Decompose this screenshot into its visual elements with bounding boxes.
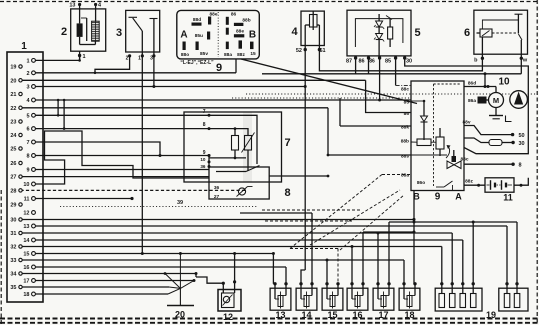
svg-text:8: 8 xyxy=(203,122,206,128)
scan shading band xyxy=(243,112,252,182)
diode in unit9 xyxy=(423,101,425,116)
svg-text:28: 28 xyxy=(10,188,16,194)
socket pin 88a xyxy=(226,42,229,50)
sensor 12 pins xyxy=(196,277,223,293)
wire pin7 step to pin8 bus xyxy=(36,142,161,156)
svg-text:A: A xyxy=(180,30,187,41)
svg-text:11: 11 xyxy=(24,197,30,203)
svg-text:11: 11 xyxy=(503,193,513,203)
fuse 4 xyxy=(301,11,324,45)
svg-text:6: 6 xyxy=(26,127,29,133)
wire 86c down to 85 input xyxy=(379,58,381,100)
svg-text:8: 8 xyxy=(519,163,522,169)
wire bus pin17 to injector 15 xyxy=(36,280,195,282)
svg-text:16: 16 xyxy=(352,310,362,320)
wire pin4 bus to control unit 85 input xyxy=(36,99,412,101)
injector 13 xyxy=(270,288,291,310)
unit 8 box xyxy=(209,167,269,199)
svg-text:8: 8 xyxy=(284,187,290,199)
svg-text:86: 86 xyxy=(231,12,237,18)
svg-text:1: 1 xyxy=(21,41,27,52)
wire 88z diagonal to control unit 85 xyxy=(241,59,417,104)
wire 52 trunk down xyxy=(304,50,306,270)
injector 14 xyxy=(296,288,317,310)
socket pin 85u xyxy=(207,32,210,40)
coil internal tap xyxy=(86,18,88,41)
svg-text:86o: 86o xyxy=(417,180,425,186)
svg-text:15: 15 xyxy=(23,252,29,258)
pump symbol xyxy=(510,91,528,109)
injector drop wires xyxy=(272,254,274,284)
relay 6 contact xyxy=(515,13,523,15)
wire comp6 w down xyxy=(520,58,522,74)
svg-text:“L-EJ”,“EZ-L”: “L-EJ”,“EZ-L” xyxy=(180,60,214,66)
trunk from unit9 bottom to injector 18 xyxy=(413,191,415,284)
svg-text:88c: 88c xyxy=(401,87,409,93)
injector 15 xyxy=(322,288,343,310)
wire bus pin14 to connector 19 xyxy=(36,239,463,241)
frame border dashed xyxy=(0,1,539,3)
wire bus terminal35 to ground fan xyxy=(22,286,169,288)
svg-text:3: 3 xyxy=(26,85,29,91)
svg-text:88b: 88b xyxy=(401,139,409,145)
resistor in unit7 left xyxy=(232,136,239,151)
svg-text:50: 50 xyxy=(519,133,525,139)
relay 5 terminals xyxy=(354,56,357,59)
wire to terminal 30 with resistor xyxy=(464,138,489,143)
svg-text:2: 2 xyxy=(26,71,29,77)
wire bus terminal31 to connector 19 xyxy=(22,232,452,234)
diode relay 5 xyxy=(347,10,411,56)
unit7 wiring xyxy=(209,115,257,164)
svg-text:88z: 88z xyxy=(465,179,473,185)
svg-text:24: 24 xyxy=(10,133,17,139)
dashed texture rows xyxy=(262,209,360,211)
svg-text:13: 13 xyxy=(275,310,285,320)
wire bus terminal30 to trunk xyxy=(22,219,414,221)
svg-text:21: 21 xyxy=(10,92,16,98)
svg-text:w: w xyxy=(522,58,528,64)
svg-text:85v: 85v xyxy=(200,51,208,57)
svg-text:25: 25 xyxy=(10,147,16,153)
wire 30 to right edge loop xyxy=(405,58,529,154)
svg-text:88a: 88a xyxy=(401,173,409,179)
ground under motor xyxy=(495,108,497,116)
svg-text:B: B xyxy=(249,30,256,41)
control sensor unit 7 xyxy=(184,112,282,182)
socket pin 88z xyxy=(239,40,243,48)
ignition switch 3 xyxy=(126,10,160,52)
wire pin1 to component 2 xyxy=(36,56,80,61)
bus A y222 xyxy=(389,221,517,223)
injector 17 xyxy=(373,288,394,310)
fuel pump motor M 10 xyxy=(489,93,504,108)
svg-text:15: 15 xyxy=(250,51,256,57)
wire comp3 pin1 long vertical to bus 15 xyxy=(141,56,143,254)
wire bus terminal32 to connector 19 xyxy=(22,246,442,248)
88a dashed input xyxy=(382,174,411,176)
resistance pack 11 xyxy=(485,178,514,192)
wire bus pin18 xyxy=(36,293,169,295)
svg-text:20: 20 xyxy=(175,310,185,320)
wire bus pin13 to connector 19 right xyxy=(36,225,508,227)
svg-text:3: 3 xyxy=(150,56,153,62)
svg-text:88s: 88s xyxy=(401,154,409,160)
wire pin3 bus to trunk x305 xyxy=(36,86,306,88)
svg-text:1: 1 xyxy=(82,54,85,60)
svg-text:30: 30 xyxy=(519,141,525,147)
svg-text:9: 9 xyxy=(435,192,441,203)
socket pin 88b xyxy=(234,23,244,26)
86a feed block xyxy=(478,97,487,104)
svg-text:5: 5 xyxy=(26,113,29,119)
wire 86d from unit9 to motor xyxy=(464,86,496,88)
svg-text:31: 31 xyxy=(10,231,16,237)
svg-text:1: 1 xyxy=(138,56,141,62)
wire pin10 staircase to unit 8 xyxy=(36,131,210,184)
svg-text:M: M xyxy=(493,96,499,105)
svg-text:36: 36 xyxy=(200,164,206,169)
svg-text:36: 36 xyxy=(214,185,220,191)
svg-text:88z: 88z xyxy=(237,52,245,58)
wire 51 to relay 6 terminal b xyxy=(319,50,482,71)
svg-text:88k: 88k xyxy=(401,125,409,131)
svg-text:16: 16 xyxy=(23,265,29,271)
relay 5 contact xyxy=(386,16,392,20)
svg-text:3: 3 xyxy=(116,27,122,39)
svg-text:6: 6 xyxy=(464,27,470,39)
socket pin 86 xyxy=(226,17,229,25)
dotted bus line y94 xyxy=(246,93,536,95)
svg-text:39: 39 xyxy=(177,200,183,206)
svg-text:86: 86 xyxy=(358,59,364,65)
svg-text:2: 2 xyxy=(61,26,67,38)
svg-text:7: 7 xyxy=(26,140,29,146)
wire injector14 right feed xyxy=(311,213,313,284)
svg-text:7: 7 xyxy=(203,109,206,115)
socket pin 85v xyxy=(196,42,199,51)
svg-text:88c: 88c xyxy=(460,157,468,163)
svg-text:34: 34 xyxy=(10,272,17,278)
pump relay 6 xyxy=(474,10,528,54)
relay socket 9 xyxy=(177,10,259,59)
svg-text:22: 22 xyxy=(10,106,16,112)
svg-text:30: 30 xyxy=(406,59,412,65)
svg-text:14: 14 xyxy=(23,238,30,244)
svg-text:86d: 86d xyxy=(468,81,476,87)
wire terminal27 row into unit 8 xyxy=(21,176,210,178)
svg-text:15: 15 xyxy=(327,310,337,320)
ignition coil 2 xyxy=(71,9,106,51)
wire terminal20 row to 86 input of control unit xyxy=(21,79,366,81)
svg-text:51: 51 xyxy=(319,48,325,54)
relay 5 winding xyxy=(388,27,393,39)
bus relay y232 to injector 16 xyxy=(363,231,414,233)
block1 pin circles 1-18 xyxy=(32,59,36,63)
socket pin 88e B xyxy=(234,34,244,37)
svg-text:87: 87 xyxy=(346,59,352,65)
svg-text:13: 13 xyxy=(69,3,75,9)
temperature sensor 12 xyxy=(218,290,241,312)
wire unit8 out to 88s chain xyxy=(269,175,328,177)
wire pin5 to sensor unit 7 pin 7 xyxy=(36,114,210,116)
svg-text:29: 29 xyxy=(10,203,16,209)
wire pin8 bus to unit 7 lower pins xyxy=(36,155,210,157)
wire 87/86 bus xyxy=(262,73,521,75)
svg-text:88v: 88v xyxy=(462,120,470,126)
svg-text:19: 19 xyxy=(10,65,16,71)
temperature sensor in unit8 xyxy=(238,188,245,195)
wire bus terminal34 to ground fan xyxy=(22,273,196,275)
svg-text:9: 9 xyxy=(203,150,206,156)
socket pin mid xyxy=(226,28,229,35)
wire pin12 mid segment to injector 14 xyxy=(240,212,312,214)
svg-text:10: 10 xyxy=(498,77,510,88)
coil primary winding xyxy=(77,23,83,37)
wire terminal29 dotted row xyxy=(60,206,258,208)
wire pin11 stub xyxy=(36,198,133,200)
zener diode 2 xyxy=(376,34,383,40)
control unit 9 box xyxy=(411,81,464,191)
svg-text:13: 13 xyxy=(23,224,29,230)
switch in unit9 bottom xyxy=(436,186,444,188)
svg-text:85u: 85u xyxy=(195,33,203,39)
svg-text:18: 18 xyxy=(23,292,29,298)
relay 6 winding xyxy=(480,29,492,37)
svg-text:30: 30 xyxy=(10,218,16,224)
svg-text:35: 35 xyxy=(10,285,16,291)
svg-text:85: 85 xyxy=(385,59,391,65)
svg-text:86: 86 xyxy=(369,59,375,65)
svg-text:32: 32 xyxy=(10,245,16,251)
svg-text:9: 9 xyxy=(216,62,222,74)
stub junction verticals from pin4 bus xyxy=(57,100,59,115)
wire terminal22 row to 88s input xyxy=(21,107,329,109)
socket pin 88e xyxy=(208,17,211,25)
wire pin2 bus to relay 9 socket xyxy=(36,72,237,74)
block1 terminal labels 19-35 xyxy=(19,65,22,68)
wire bus terminal33 to injector 18 xyxy=(22,259,404,261)
connector 19 right part xyxy=(499,288,528,311)
valve symbol unit9 xyxy=(447,161,454,169)
svg-text:85: 85 xyxy=(404,100,410,106)
svg-text:86a: 86a xyxy=(468,98,476,104)
resistor in unit9 xyxy=(417,139,431,146)
wire bus pin15 xyxy=(36,253,274,255)
injector 16 xyxy=(347,288,368,310)
svg-text:17: 17 xyxy=(378,310,388,320)
svg-text:5: 5 xyxy=(414,27,420,39)
svg-text:2: 2 xyxy=(126,56,129,62)
svg-text:88d: 88d xyxy=(193,17,201,23)
svg-text:19: 19 xyxy=(486,310,496,320)
svg-text:18: 18 xyxy=(404,310,414,320)
svg-text:33: 33 xyxy=(10,258,16,264)
wire comp3 pin3 down to pin3 bus xyxy=(153,56,155,87)
svg-text:27: 27 xyxy=(214,194,220,200)
svg-text:9: 9 xyxy=(26,168,29,174)
svg-text:7: 7 xyxy=(284,137,290,149)
socket pin 88d xyxy=(192,23,202,26)
connector X1 block 1 xyxy=(7,52,43,302)
socket pin 88o xyxy=(183,42,186,51)
wire junction to 86d xyxy=(484,74,486,87)
injector 18 xyxy=(399,288,420,310)
svg-text:26: 26 xyxy=(10,161,16,167)
wire 85 dash-dot to 88c xyxy=(395,58,397,85)
svg-text:10: 10 xyxy=(200,157,206,162)
wire bus pin16 to injector 13 xyxy=(36,266,287,268)
svg-text:20: 20 xyxy=(10,78,16,84)
wire comp3 pin2 to pin2 bus xyxy=(95,56,130,73)
unit7 switch contact xyxy=(216,171,246,173)
transistor element unit9 xyxy=(436,137,444,149)
svg-text:4: 4 xyxy=(291,26,298,38)
dashed fan to injectors xyxy=(290,175,382,249)
dotted bus line y98 xyxy=(232,97,411,99)
svg-text:10: 10 xyxy=(23,182,29,188)
adjustable resistor unit7 xyxy=(245,136,252,151)
svg-text:88e: 88e xyxy=(236,29,244,35)
svg-text:88b: 88b xyxy=(242,18,250,24)
relay 6 inner frame xyxy=(482,20,518,29)
svg-text:14: 14 xyxy=(301,310,311,320)
svg-text:8: 8 xyxy=(26,154,29,160)
socket pin 15 xyxy=(250,42,254,50)
svg-text:27: 27 xyxy=(10,175,16,181)
svg-text:12: 12 xyxy=(23,211,29,217)
connector 19 left part xyxy=(435,288,482,311)
svg-text:88a: 88a xyxy=(224,52,232,58)
svg-text:88o: 88o xyxy=(181,52,189,58)
svg-text:88e: 88e xyxy=(209,12,217,18)
svg-text:17: 17 xyxy=(23,279,29,285)
coil secondary winding xyxy=(92,21,100,41)
wire device 11 right hook xyxy=(514,178,528,185)
wire pin9 bus into unit 8 xyxy=(36,169,210,171)
ground junction 20 xyxy=(165,274,180,289)
wire 88k feed xyxy=(339,98,341,126)
wire terminal28 dashed row xyxy=(21,189,247,191)
svg-text:12: 12 xyxy=(223,312,233,322)
svg-text:23: 23 xyxy=(10,120,16,126)
arrow curve unit9 xyxy=(446,146,450,158)
svg-text:52: 52 xyxy=(296,48,302,54)
svg-text:1: 1 xyxy=(26,58,29,64)
wire pin6 to sensor unit 7 pin 8 xyxy=(36,128,210,130)
zener diode 1 xyxy=(376,21,383,27)
svg-text:86: 86 xyxy=(404,111,410,117)
svg-text:A: A xyxy=(455,192,462,202)
